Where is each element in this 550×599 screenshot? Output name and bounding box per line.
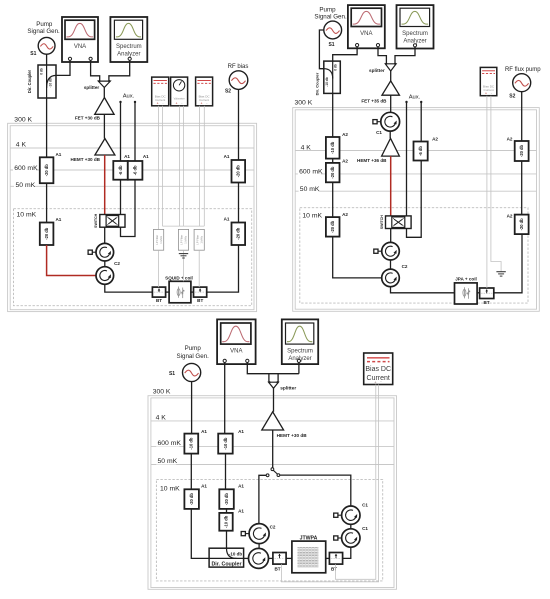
wire circulator to circulator <box>390 260 392 269</box>
wire A1 to circulator C2 (red) <box>47 245 96 276</box>
wire circulator to circulator <box>350 524 352 528</box>
4 K stage line <box>151 420 394 422</box>
wire C2 to JPA <box>391 287 455 293</box>
wire A1 to A1 (pump line) <box>190 454 192 490</box>
svg-text:splitter: splitter <box>84 85 100 90</box>
wire splitter to FET amplifier <box>390 71 392 81</box>
svg-text:+: + <box>201 101 203 105</box>
svg-text:50 mK: 50 mK <box>300 186 320 193</box>
bias tee BT (left) <box>152 287 165 297</box>
svg-text:S1: S1 <box>30 51 36 57</box>
wire LP filter 3 to BT <box>198 250 200 287</box>
50 mK stage line <box>10 185 254 187</box>
svg-text:JPA + coil: JPA + coil <box>455 277 477 282</box>
label 50 mK <box>156 457 176 465</box>
svg-text:1 MHz: 1 MHz <box>184 235 188 243</box>
wire S1 to directional coupler <box>319 30 323 69</box>
wire HEMT to switch (red) <box>104 155 106 215</box>
bias tee BT (left) <box>273 553 286 565</box>
circulator C1 (upper) <box>342 506 360 524</box>
attenuator A2 -20 db (10 mK) <box>326 217 340 237</box>
Spectrum Analyzer instrument <box>110 17 147 62</box>
bias tee BT (right) <box>194 287 207 297</box>
attenuator A1 -20 db (10 mK right) <box>232 223 246 246</box>
svg-text:A1: A1 <box>143 154 149 159</box>
svg-text:Bias DC: Bias DC <box>365 366 391 373</box>
svg-text:Signal Gen.: Signal Gen. <box>314 14 347 21</box>
svg-text:10 mK: 10 mK <box>160 486 180 493</box>
JTWPA device <box>292 541 326 573</box>
svg-text:FET +30 dB: FET +30 dB <box>75 115 101 120</box>
circulator (isolator) <box>96 243 114 261</box>
svg-text:10 mK: 10 mK <box>302 213 322 220</box>
label 50 mK <box>299 185 319 193</box>
svg-text:-20 db: -20 db <box>44 227 49 240</box>
600 mK stage line <box>10 169 254 171</box>
wire circulator to circulator <box>258 544 260 549</box>
svg-text:Spectrum: Spectrum <box>287 349 313 355</box>
300 K stage box <box>10 126 254 310</box>
wire coupler to attenuator A2 <box>332 93 334 137</box>
50 mK stage line <box>295 190 536 192</box>
Bias DC Current instrument <box>364 353 393 385</box>
wire Spectrum Analyzer port to splitter <box>298 363 300 374</box>
Voltmeter instrument <box>171 77 188 106</box>
300 K stage box <box>151 398 394 588</box>
svg-text:A1: A1 <box>201 429 207 434</box>
wire switch to circulator <box>390 229 392 243</box>
svg-text:-20 db: -20 db <box>224 493 229 506</box>
svg-text:600 mK: 600 mK <box>299 169 323 176</box>
wire A1 to A1 (10 mK) <box>46 183 48 222</box>
directional coupler DC3 <box>209 548 244 567</box>
pump source S1 <box>183 363 201 381</box>
circulator (isolator) <box>382 242 400 260</box>
circulator C2 <box>96 267 114 285</box>
attenuator A1 -10 db (600 mK, VNA line) <box>218 434 233 454</box>
wire BT to flux pump attenuator chain <box>494 234 522 293</box>
svg-text:300 K: 300 K <box>295 100 313 107</box>
aux wire 1 <box>120 102 122 214</box>
aux wire 2 with bypass loop <box>121 102 136 236</box>
Bias DC Current instrument 1 <box>152 77 169 106</box>
attenuator A2 -20 db (600 mK) <box>326 163 340 182</box>
directional coupler DC1 <box>38 65 56 98</box>
wire splitter feed right <box>277 374 279 383</box>
Bias DC Current instrument <box>480 67 497 95</box>
wire splitter feed left <box>268 374 270 383</box>
wire coupler to circulator C2 <box>244 557 249 559</box>
svg-text:A2: A2 <box>507 136 513 141</box>
bias tee BT <box>480 288 494 299</box>
svg-text:Spectrum: Spectrum <box>116 44 142 50</box>
wire S1 to directional coupler <box>191 382 193 434</box>
ground <box>179 254 188 258</box>
svg-text:-10 db: -10 db <box>223 437 228 450</box>
svg-text:JTWPA: JTWPA <box>300 536 318 542</box>
attenuator A2 -10 db (4 K) <box>326 137 340 159</box>
circulator (isolator) upper left <box>249 524 269 544</box>
svg-text:VNA: VNA <box>360 31 372 37</box>
wire A2 to A2 (10 mK) <box>332 182 334 217</box>
svg-text:A1: A1 <box>224 217 230 222</box>
wire splitter to FET amplifier <box>103 88 105 98</box>
op-amp FET +35 dB <box>382 81 400 95</box>
VNA instrument <box>217 319 256 364</box>
switch lever <box>273 470 277 474</box>
Bias DC Current instrument 2 <box>196 77 213 106</box>
wire splitter to HEMT <box>273 388 275 412</box>
wire SQUID to bias tee BT <box>191 291 194 293</box>
svg-text:C1: C1 <box>362 502 368 507</box>
svg-text:BT: BT <box>331 567 337 572</box>
Spectrum Analyzer instrument <box>282 319 318 364</box>
svg-text:VNA: VNA <box>74 44 86 50</box>
svg-text:-6 db: -6 db <box>133 165 138 175</box>
switch contact 1 <box>266 474 269 477</box>
svg-text:BT: BT <box>484 300 490 305</box>
wire circulator to circulator <box>104 261 106 267</box>
svg-text:+: + <box>485 91 487 95</box>
pump source S1 <box>324 21 342 39</box>
svg-text:-10 db: -10 db <box>229 552 243 557</box>
600 mK stage line <box>295 173 536 175</box>
svg-text:A1: A1 <box>224 154 230 159</box>
10 mK stage box (dashed) <box>14 209 252 306</box>
cryostat outer box (left diagram) <box>8 123 257 311</box>
svg-text:0 db: 0 db <box>333 64 337 71</box>
svg-text:+: + <box>157 101 159 105</box>
op-amp FET +30 dB <box>95 98 114 115</box>
50 mK stage line <box>151 464 394 466</box>
svg-text:-6 db: -6 db <box>118 165 123 175</box>
splitter <box>98 80 110 88</box>
svg-text:-10 db: -10 db <box>325 77 329 86</box>
svg-text:-20 db: -20 db <box>189 493 194 506</box>
svg-text:A1: A1 <box>124 154 130 159</box>
svg-text:C1: C1 <box>362 526 368 531</box>
wire FET to HEMT <box>103 114 105 138</box>
attenuator A2 -20 db (10 mK right) <box>515 215 529 235</box>
circulator C2 <box>382 269 400 287</box>
svg-text:50 mK: 50 mK <box>16 182 36 189</box>
terminator <box>88 250 96 254</box>
svg-text:Aux.: Aux. <box>409 95 421 101</box>
svg-text:1 MHz: 1 MHz <box>159 235 163 243</box>
svg-text:A2: A2 <box>432 136 438 141</box>
wire S2 to attenuator <box>238 89 240 160</box>
op-amp HEMT +36 dB <box>382 138 400 156</box>
svg-text:A1: A1 <box>55 217 61 222</box>
svg-text:Pump: Pump <box>185 345 202 352</box>
svg-text:VNA: VNA <box>230 349 242 355</box>
svg-text:0 db: 0 db <box>40 68 44 75</box>
bias wiring (gray) <box>336 385 376 580</box>
attenuator A1 -20 db (10 mK, pump line) <box>184 489 199 509</box>
svg-text:SWITCH: SWITCH <box>380 215 384 230</box>
svg-text:splitter: splitter <box>369 68 385 73</box>
wire VNA port 2 to splitter <box>378 47 386 64</box>
wire HEMT to switch <box>272 430 274 468</box>
wire HEMT to switch (red) <box>390 156 392 216</box>
svg-text:A1: A1 <box>238 429 244 434</box>
svg-text:-20 db: -20 db <box>330 166 335 179</box>
10 mK stage box (dashed) <box>156 479 382 581</box>
attenuator A1 -20 db (10 mK) <box>40 223 54 246</box>
svg-text:A2: A2 <box>342 212 348 217</box>
wire Spectrum Analyzer port to splitter <box>109 61 130 81</box>
wire coupler to attenuator A1 <box>46 98 48 157</box>
attenuator A1 -20 db (600 mK) <box>40 157 54 183</box>
svg-text:1 MHz: 1 MHz <box>199 235 203 243</box>
600 mK stage line <box>151 445 394 447</box>
svg-text:HEMT +30 dB: HEMT +30 dB <box>71 157 101 162</box>
svg-text:Aux.: Aux. <box>123 94 135 100</box>
svg-text:Dir. Coupler: Dir. Coupler <box>315 72 320 95</box>
LP filter 1 MHz (1) <box>154 229 164 250</box>
op-amp HEMT +30 dB <box>95 139 115 156</box>
cryostat outer box (bottom diagram) <box>148 396 397 590</box>
svg-text:Voltmeter: Voltmeter <box>174 97 185 101</box>
svg-text:BT: BT <box>197 298 203 303</box>
svg-text:-20 db: -20 db <box>236 227 241 240</box>
svg-text:S2: S2 <box>509 94 515 100</box>
svg-text:+: + <box>176 101 178 105</box>
svg-text:LP Filter: LP Filter <box>180 235 184 245</box>
svg-text:HEMT +30 dB: HEMT +30 dB <box>277 433 308 438</box>
svg-text:10 mK: 10 mK <box>17 212 37 219</box>
svg-text:C2: C2 <box>114 261 120 266</box>
wire switch to circulator C1 branch <box>280 475 351 506</box>
svg-text:Signal Gen.: Signal Gen. <box>177 353 210 360</box>
wire VNA port 2 to splitter <box>247 363 299 374</box>
svg-text:600 mK: 600 mK <box>158 440 182 447</box>
RF flux pump source S2 <box>513 74 531 92</box>
wire BT to circulator C1 <box>343 547 351 558</box>
bias wiring (gray) <box>486 96 488 288</box>
svg-text:-10 db: -10 db <box>49 78 53 87</box>
terminator <box>241 532 249 536</box>
svg-text:A1: A1 <box>55 152 61 157</box>
wire C2 to bias tee BT <box>269 557 273 559</box>
attenuator A2 -20 db (600 mK right) <box>515 141 529 161</box>
VNA instrument <box>62 17 98 62</box>
svg-text:-10 db: -10 db <box>189 437 194 450</box>
svg-text:A1: A1 <box>238 483 244 488</box>
svg-text:-20 db: -20 db <box>44 164 49 177</box>
circulator C1 (lower) <box>342 529 360 547</box>
terminator <box>334 513 342 517</box>
pump source S1 <box>38 37 55 54</box>
LP filter 1 MHz (3) <box>194 229 204 250</box>
svg-text:4 K: 4 K <box>156 414 167 421</box>
terminator <box>334 536 342 540</box>
attenuator A1 -10 db (10 mK, VNA line) <box>219 513 232 531</box>
ground <box>496 272 505 276</box>
microwave switch SW1 <box>94 213 125 228</box>
svg-text:Current: Current <box>367 375 390 382</box>
svg-text:300 K: 300 K <box>153 389 171 396</box>
wire A1 to directional coupler <box>226 531 228 549</box>
wire VNA port 2 to splitter <box>91 61 100 81</box>
svg-text:Pump: Pump <box>36 21 53 28</box>
wire VNA port 1 to attenuator <box>224 363 226 434</box>
label 600 mK <box>13 164 36 172</box>
svg-text:Spectrum: Spectrum <box>402 31 428 37</box>
svg-text:600 mK: 600 mK <box>14 165 38 172</box>
svg-text:SWITCH: SWITCH <box>94 213 98 228</box>
wire LP filter 2 to SQUID <box>183 250 185 281</box>
wire BT to JTWPA <box>286 557 292 559</box>
svg-text:S1: S1 <box>169 371 175 377</box>
svg-text:LP Filter: LP Filter <box>155 235 159 245</box>
wire attenuator to attenuator <box>238 183 240 223</box>
svg-text:-6 db: -6 db <box>418 146 423 156</box>
svg-text:C2: C2 <box>270 525 276 530</box>
wire BT to SQUID <box>166 291 170 293</box>
wire A2 to A2 <box>332 159 334 163</box>
wire FET to circulator C1 <box>390 95 392 112</box>
bias tee BT (right) <box>329 553 342 565</box>
switch contact 2 <box>277 474 280 477</box>
svg-text:4 K: 4 K <box>16 142 27 149</box>
svg-text:BT: BT <box>156 298 162 303</box>
Spectrum Analyzer instrument <box>397 5 434 48</box>
circulator C1 <box>381 112 400 131</box>
svg-text:A1: A1 <box>238 509 244 514</box>
svg-text:BT: BT <box>274 567 280 572</box>
svg-text:A2: A2 <box>342 159 348 164</box>
switch common contact <box>271 468 274 471</box>
wire JPA to bias tee <box>477 292 480 294</box>
svg-text:-20 db: -20 db <box>236 165 241 178</box>
bias wiring (gray) <box>157 106 159 226</box>
wire A1 to A1 (VNA line) <box>226 509 228 513</box>
svg-text:-20 db: -20 db <box>519 144 524 157</box>
label 600 mK <box>156 439 179 447</box>
RF bias source S2 <box>229 71 248 90</box>
wire switch to circulator <box>104 227 106 243</box>
attenuator A2 -6 db (aux) <box>414 142 428 161</box>
300 K stage box <box>295 110 536 309</box>
svg-text:50 mK: 50 mK <box>158 458 178 465</box>
wire LP filter 1 to BT <box>158 250 160 287</box>
svg-text:splitter: splitter <box>280 385 296 391</box>
microwave switch SW2 <box>380 215 411 230</box>
10 mK stage box (dashed) <box>300 208 528 303</box>
wire attenuator to attenuator <box>521 161 523 215</box>
wire S1 pump to directional coupler <box>191 509 209 558</box>
svg-text:-20 db: -20 db <box>330 220 335 233</box>
JPA + coil device <box>455 283 478 304</box>
SQUID + coil device <box>169 281 191 303</box>
svg-text:LP Filter: LP Filter <box>195 235 199 245</box>
wire JTWPA to bias tee BT <box>326 557 330 559</box>
svg-text:Signal Gen.: Signal Gen. <box>27 28 60 35</box>
svg-text:HEMT +36 dB: HEMT +36 dB <box>357 158 387 163</box>
svg-text:RF flux pump: RF flux pump <box>505 67 541 73</box>
wire A1 to A1 (VNA line) <box>225 454 227 490</box>
svg-text:4 K: 4 K <box>301 145 312 152</box>
attenuator A1 -6 db (aux 1) <box>113 161 128 180</box>
directional coupler DC2 <box>324 61 341 93</box>
svg-text:A2: A2 <box>507 214 513 219</box>
svg-text:FET +35 dB: FET +35 dB <box>361 98 387 103</box>
4 K stage line <box>295 150 536 152</box>
wire A2 to circulator C2 <box>333 237 382 278</box>
wire C1 to HEMT <box>389 131 391 138</box>
cryostat outer box (right diagram) <box>293 108 540 312</box>
aux wire 2 with bypass loop <box>407 102 422 237</box>
svg-text:-10 db: -10 db <box>223 515 228 528</box>
attenuator A1 -6 db (aux 2) <box>128 161 143 180</box>
svg-text:Pump: Pump <box>319 7 336 14</box>
attenuator A1 -20 db (10 mK, VNA line) <box>219 489 234 509</box>
splitter <box>385 63 396 71</box>
circulator C2 <box>249 548 269 568</box>
svg-text:Analyzer: Analyzer <box>117 51 140 57</box>
terminator <box>373 120 381 124</box>
svg-text:A1: A1 <box>201 483 207 488</box>
svg-text:-20 db: -20 db <box>519 218 524 231</box>
svg-text:C1: C1 <box>376 130 382 135</box>
4 K stage line <box>10 147 254 149</box>
wire VNA port 1 to coupler <box>333 47 357 62</box>
svg-text:A2: A2 <box>342 132 348 137</box>
VNA instrument <box>348 5 385 48</box>
op-amp HEMT +30 dB <box>262 412 284 430</box>
wire Spectrum Analyzer port to splitter <box>395 47 415 64</box>
svg-text:300 K: 300 K <box>14 117 32 124</box>
svg-text:Dir. Coupler: Dir. Coupler <box>211 562 241 568</box>
wire S1 to directional coupler <box>46 54 48 65</box>
wire coupler coupled port to VNA port 1 <box>56 61 70 76</box>
svg-text:C2: C2 <box>402 264 408 269</box>
wire switch to circulator C2 branch <box>259 475 266 523</box>
terminator <box>374 249 382 253</box>
splitter <box>268 381 278 388</box>
aux wire 1 <box>406 102 408 216</box>
attenuator A1 -20 db (600 mK right) <box>232 160 246 183</box>
svg-text:RF bias: RF bias <box>228 64 249 70</box>
LP filter 1 MHz (2) <box>178 229 188 250</box>
wire S2 to attenuator <box>521 92 523 141</box>
wire BT to RF bias attenuator chain <box>207 245 239 292</box>
label 50 mK <box>14 181 34 189</box>
label 600 mK <box>298 167 321 175</box>
svg-text:-10 db: -10 db <box>330 141 335 154</box>
svg-text:SQUID + coil: SQUID + coil <box>165 275 193 280</box>
svg-text:S1: S1 <box>328 42 334 48</box>
svg-text:Dir. Coupler: Dir. Coupler <box>27 69 32 93</box>
svg-text:S2: S2 <box>225 89 231 95</box>
wire C2 to bias tee BT <box>105 284 153 292</box>
attenuator A1 -10 db (600 mK, pump line) <box>184 434 198 454</box>
